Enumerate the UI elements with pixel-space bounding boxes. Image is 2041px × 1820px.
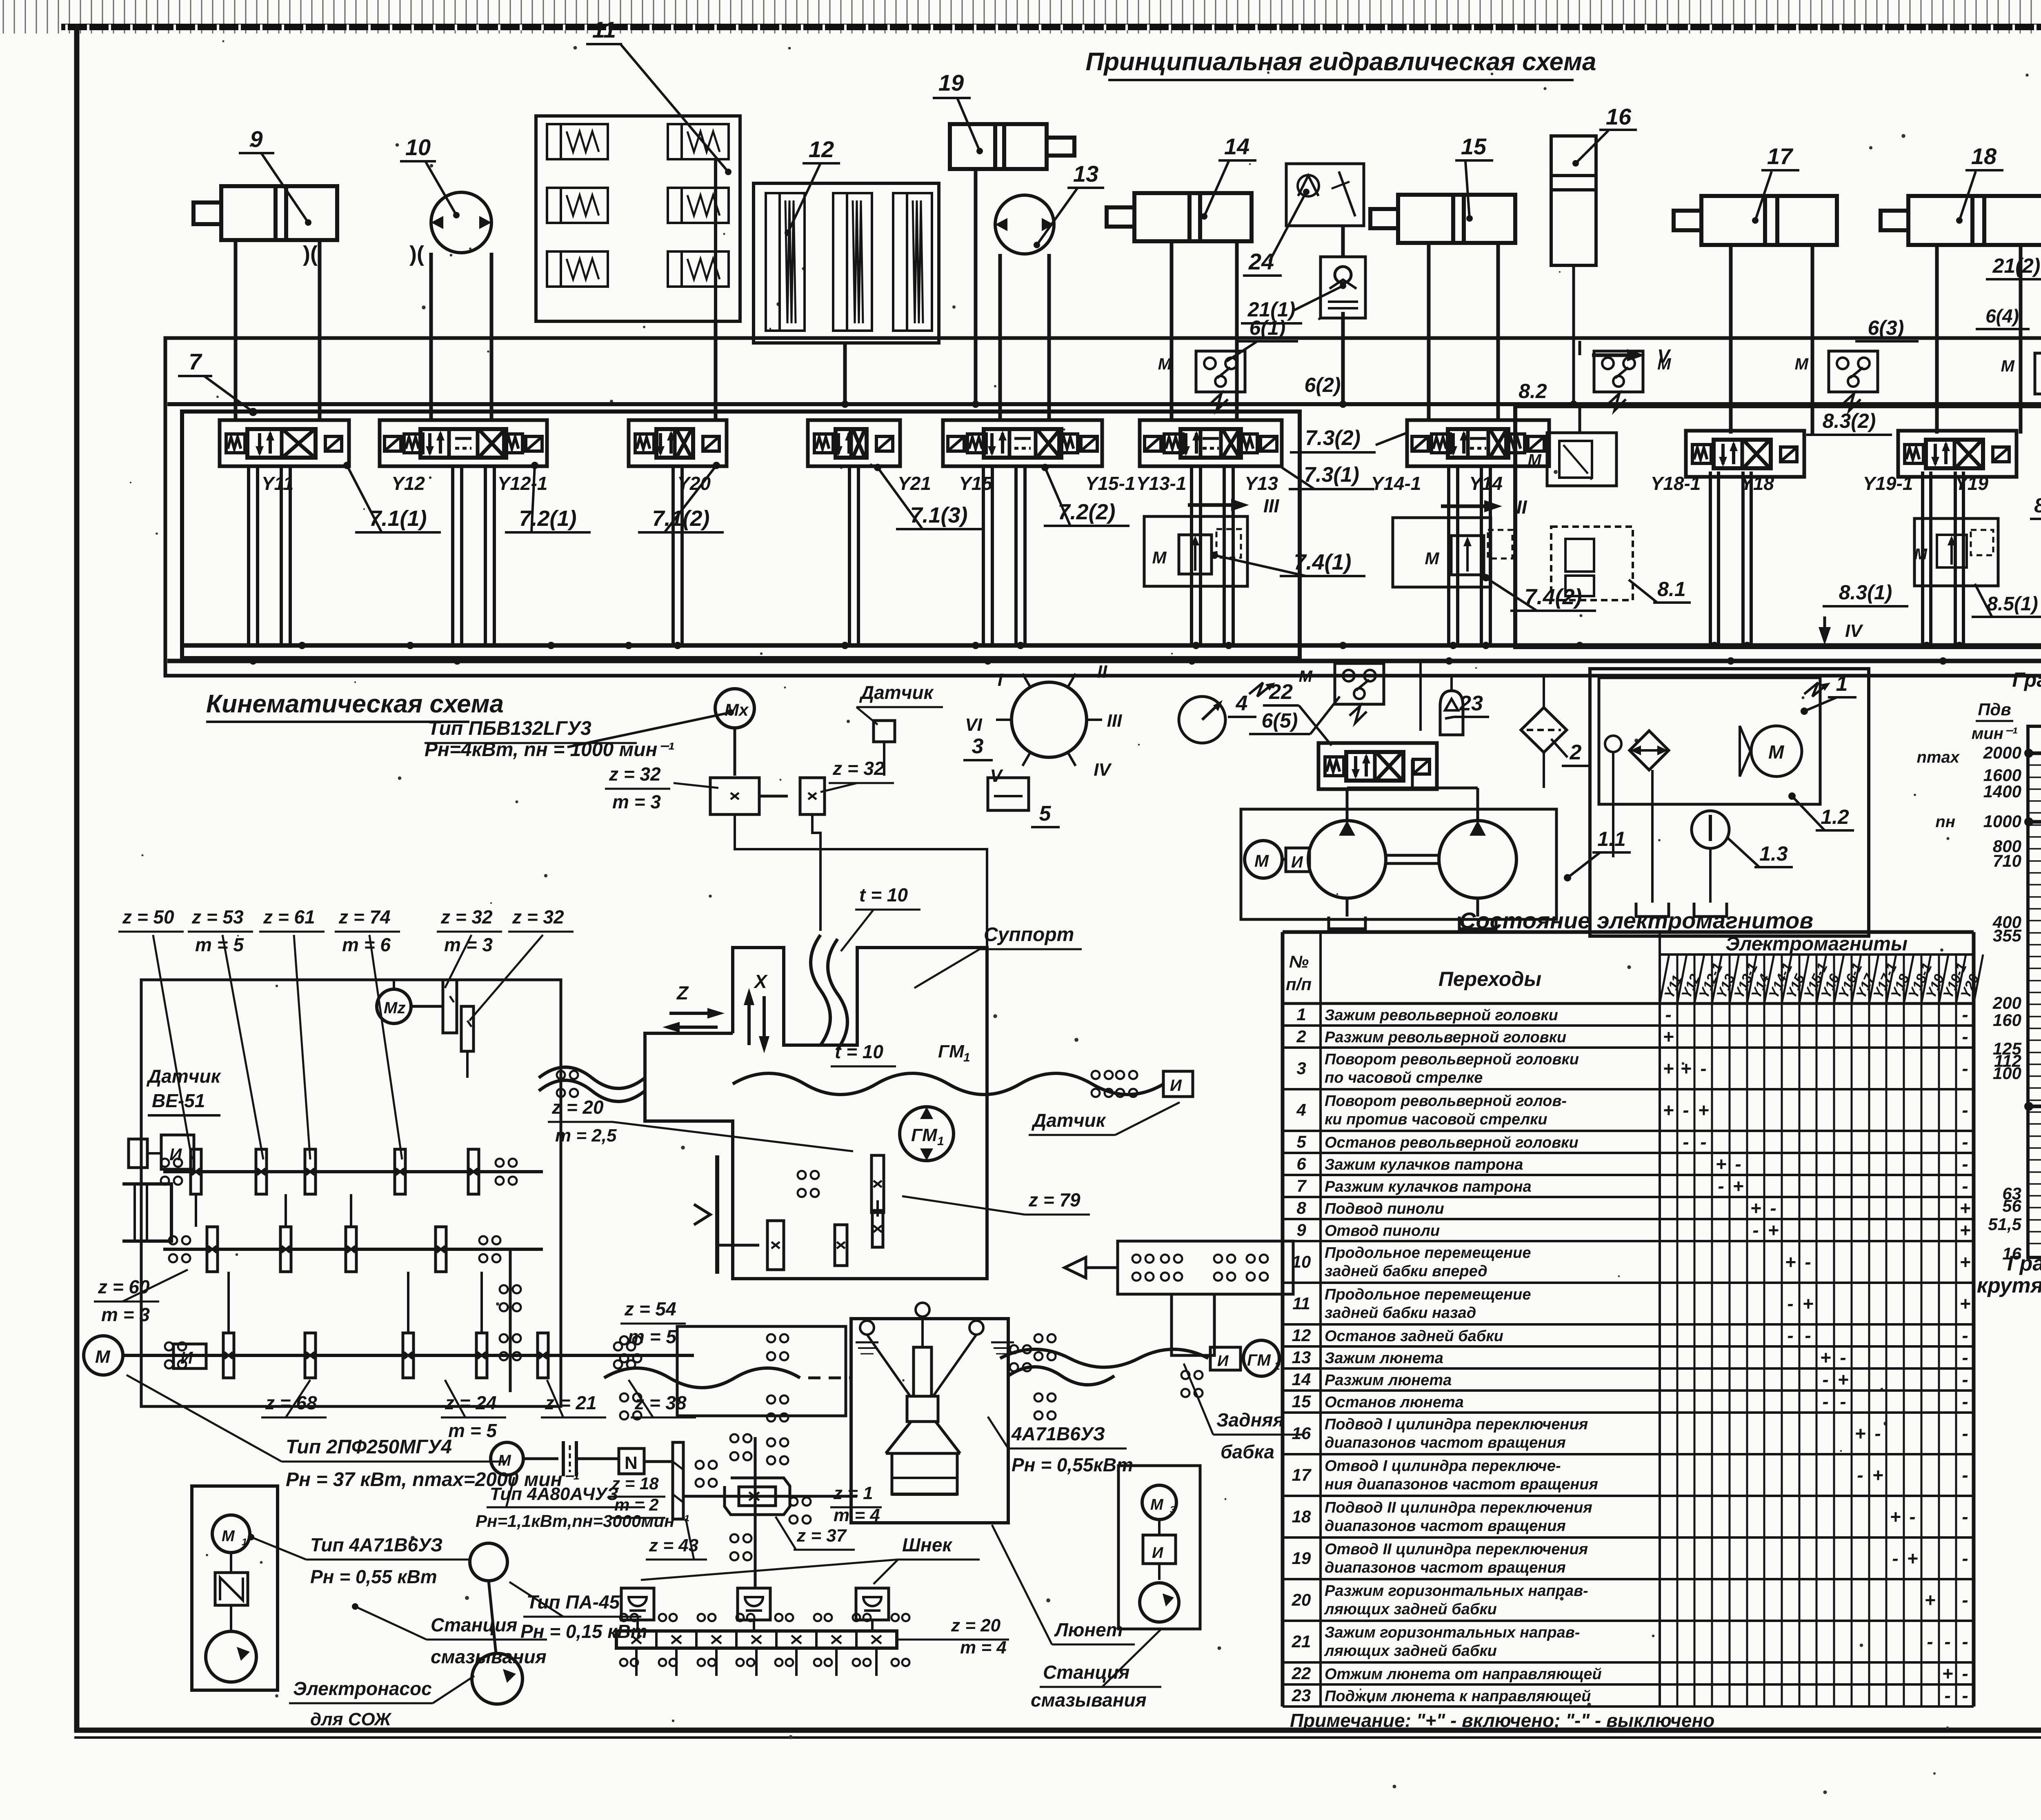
svg-text:7.3(1): 7.3(1) (1304, 463, 1359, 487)
svg-text:19: 19 (1292, 1549, 1311, 1568)
svg-text:7.2(1): 7.2(1) (519, 506, 576, 531)
svg-text:для СОЖ: для СОЖ (310, 1709, 392, 1729)
svg-text:Разжим револьверной головки: Разжим револьверной головки (1325, 1029, 1566, 1046)
svg-text:+: + (1855, 1423, 1866, 1444)
svg-text:Y18: Y18 (1741, 473, 1774, 494)
svg-text:5: 5 (1296, 1132, 1306, 1151)
svg-text:+: + (1698, 1099, 1709, 1121)
svg-text:Зажим револьверной головки: Зажим револьверной головки (1325, 1007, 1558, 1024)
svg-text:11: 11 (592, 17, 616, 42)
svg-text:-: - (1944, 1631, 1950, 1652)
svg-text:ГМ: ГМ (938, 1041, 965, 1061)
svg-text:-: - (1962, 1325, 1968, 1346)
svg-text:1.3: 1.3 (1759, 842, 1788, 865)
svg-text:3: 3 (1170, 1504, 1176, 1515)
svg-text:ния диапазонов частот вращения: ния диапазонов частот вращения (1325, 1476, 1598, 1493)
svg-text:-: - (1962, 1391, 1968, 1412)
svg-text:6: 6 (1296, 1154, 1306, 1173)
svg-text:Пдв: Пдв (1978, 700, 2011, 719)
svg-text:nн: nн (1935, 813, 1955, 831)
svg-text:И: И (1217, 1353, 1229, 1370)
svg-text:z = 1: z = 1 (833, 1483, 873, 1503)
svg-text:задней бабки назад: задней бабки назад (1325, 1304, 1476, 1322)
svg-text:z = 38: z = 38 (634, 1392, 687, 1413)
svg-text:Y14-1: Y14-1 (1371, 473, 1421, 494)
svg-text:1000: 1000 (1983, 812, 2021, 831)
svg-text:-: - (1683, 1099, 1689, 1121)
svg-text:-: - (1962, 1685, 1968, 1706)
svg-text:8: 8 (1296, 1198, 1306, 1217)
svg-text:10: 10 (1292, 1252, 1311, 1271)
svg-text:Y15-1: Y15-1 (1085, 473, 1136, 494)
svg-text:100: 100 (1993, 1064, 2021, 1083)
svg-text:Y18-1: Y18-1 (1651, 473, 1701, 494)
svg-text:16: 16 (1292, 1424, 1311, 1443)
svg-text:График частот вращения: График частот вращения (2012, 668, 2041, 691)
svg-text:+: + (1803, 1293, 1814, 1314)
svg-text:мин⁻¹: мин⁻¹ (1972, 725, 2018, 743)
svg-text:Y12-1: Y12-1 (498, 473, 548, 494)
svg-text:+: + (1960, 1197, 1971, 1219)
svg-text:-: - (1962, 1506, 1968, 1527)
svg-text:Продольное перемещение: Продольное перемещение (1325, 1244, 1531, 1262)
svg-text:8.5(1): 8.5(1) (1987, 593, 2038, 615)
svg-text:Pн=1,1кВт,nн=3000мин⁻¹: Pн=1,1кВт,nн=3000мин⁻¹ (476, 1511, 689, 1531)
svg-text:М: М (95, 1347, 111, 1367)
svg-text:диапазонов частот вращения: диапазонов частот вращения (1325, 1517, 1566, 1535)
svg-text:Электронасос: Электронасос (293, 1678, 432, 1699)
svg-text:II: II (1516, 496, 1527, 518)
svg-text:-: - (1700, 1131, 1706, 1153)
svg-text:Y19: Y19 (1955, 473, 1988, 494)
svg-text:Шнек: Шнек (902, 1534, 953, 1555)
svg-text:-: - (1962, 1631, 1968, 1652)
svg-text:21: 21 (1292, 1632, 1311, 1651)
svg-text:ляющих задней бабки: ляющих задней бабки (1324, 1642, 1497, 1660)
svg-text:z = 53: z = 53 (191, 906, 244, 928)
svg-text:4А71В6УЗ: 4А71В6УЗ (1011, 1423, 1105, 1444)
svg-text:18: 18 (1971, 143, 1997, 169)
svg-text:6(4): 6(4) (1985, 305, 2019, 327)
svg-text:z = 61: z = 61 (263, 906, 315, 928)
svg-text:7.3(2): 7.3(2) (1305, 426, 1361, 450)
svg-text:+: + (1942, 1663, 1953, 1684)
svg-text:М: М (222, 1528, 235, 1545)
svg-text:Датчик: Датчик (859, 682, 934, 703)
svg-text:1: 1 (1836, 672, 1848, 696)
svg-text:N: N (625, 1453, 638, 1473)
svg-text:m = 5: m = 5 (448, 1420, 497, 1441)
svg-text:11: 11 (1292, 1294, 1310, 1313)
svg-text:-: - (1770, 1197, 1776, 1219)
svg-text:Подвод пиноли: Подвод пиноли (1325, 1200, 1444, 1217)
svg-text:20: 20 (1292, 1590, 1311, 1609)
svg-text:Останов задней бабки: Останов задней бабки (1325, 1328, 1503, 1345)
svg-text:Y12: Y12 (391, 473, 425, 494)
svg-text:И: И (1170, 1077, 1182, 1095)
svg-text:-: - (1805, 1325, 1811, 1346)
svg-text:8.1: 8.1 (1657, 578, 1686, 601)
svg-text:-: - (1787, 1293, 1793, 1314)
svg-text:2000: 2000 (1983, 743, 2021, 762)
svg-text:+: + (1960, 1251, 1971, 1273)
svg-text:16: 16 (1606, 104, 1632, 129)
svg-text:Pн = 0,55 кВт: Pн = 0,55 кВт (310, 1566, 437, 1587)
svg-text:Принципиальная гидравлическая: Принципиальная гидравлическая схема (1086, 48, 1596, 76)
svg-text:3: 3 (1296, 1059, 1306, 1078)
svg-text:Y13-1: Y13-1 (1136, 473, 1187, 494)
svg-text:-: - (1735, 1153, 1741, 1175)
svg-text:+: + (1960, 1293, 1971, 1314)
svg-text:7: 7 (1296, 1176, 1307, 1195)
svg-text:+: + (1960, 1219, 1971, 1241)
svg-text:М: М (1158, 355, 1172, 373)
svg-text:+: + (1681, 1058, 1692, 1079)
svg-text:И: И (169, 1145, 182, 1164)
svg-text:Pн = 0,55кВт: Pн = 0,55кВт (1012, 1454, 1133, 1475)
svg-text:9: 9 (250, 126, 262, 152)
svg-text:№: № (1289, 952, 1309, 971)
svg-text:z = 37: z = 37 (796, 1526, 847, 1546)
svg-text:М: М (1299, 667, 1313, 685)
svg-text:+: + (1663, 1026, 1674, 1047)
svg-text:VI: VI (965, 715, 982, 735)
svg-text:-: - (1874, 1423, 1881, 1444)
svg-text:z = 50: z = 50 (122, 906, 174, 928)
svg-text:М: М (1768, 741, 1785, 763)
svg-text:Люнет: Люнет (1054, 1619, 1123, 1640)
svg-text:п/п: п/п (1286, 975, 1312, 994)
svg-text:+: + (1785, 1251, 1796, 1273)
svg-text:+: + (1925, 1589, 1936, 1611)
svg-text:ВЕ-51: ВЕ-51 (152, 1090, 205, 1111)
svg-text:Разжим горизонтальных направ-: Разжим горизонтальных направ- (1325, 1582, 1588, 1600)
svg-text:160: 160 (1993, 1010, 2021, 1030)
svg-text:2: 2 (1296, 1027, 1306, 1046)
svg-text:21(2): 21(2) (1992, 254, 2041, 277)
svg-text:Тип 4А71В6УЗ: Тип 4А71В6УЗ (310, 1534, 442, 1555)
svg-text:4: 4 (1296, 1100, 1306, 1119)
svg-text:крутящего момента Т на шпинде: крутящего момента Т на шпинделе (1977, 1274, 2041, 1297)
svg-text:-: - (1718, 1175, 1724, 1197)
svg-text:задней бабки вперед: задней бабки вперед (1325, 1263, 1487, 1280)
svg-text:диапазонов частот вращения: диапазонов частот вращения (1325, 1559, 1566, 1576)
svg-text:М: М (1152, 548, 1167, 567)
svg-text:Датчик: Датчик (146, 1066, 222, 1087)
svg-text:-: - (1805, 1251, 1811, 1273)
svg-text:Зажим люнета: Зажим люнета (1325, 1350, 1443, 1367)
svg-text:М: М (1528, 451, 1542, 469)
svg-text:I: I (998, 670, 1003, 690)
svg-text:-: - (1962, 1026, 1968, 1047)
svg-text:бабка: бабка (1221, 1441, 1274, 1462)
svg-text:1400: 1400 (1983, 782, 2021, 801)
svg-text:14: 14 (1224, 133, 1250, 159)
svg-text:19: 19 (938, 70, 964, 96)
svg-text:Y14: Y14 (1469, 473, 1503, 494)
svg-text:-: - (1752, 1219, 1759, 1241)
svg-text:13: 13 (1292, 1348, 1311, 1367)
svg-text:t = 10: t = 10 (859, 884, 908, 906)
svg-text:III: III (1107, 711, 1122, 731)
svg-text:-: - (1962, 1589, 1968, 1611)
svg-text:4: 4 (1236, 692, 1248, 715)
svg-text:7.4(1): 7.4(1) (1294, 550, 1351, 574)
svg-text:18: 18 (1292, 1507, 1311, 1526)
svg-text:17: 17 (1292, 1465, 1312, 1484)
svg-text:-: - (1840, 1391, 1846, 1412)
svg-text:-: - (1700, 1058, 1706, 1079)
svg-text:Отвод I цилиндра переключе-: Отвод I цилиндра переключе- (1325, 1457, 1561, 1475)
svg-text:-: - (1962, 1131, 1968, 1153)
svg-text:m = 5: m = 5 (195, 934, 244, 955)
svg-text:+: + (1820, 1347, 1831, 1368)
svg-text:-: - (1787, 1325, 1793, 1346)
svg-text:8.2: 8.2 (1519, 380, 1547, 403)
svg-text:Переходы: Переходы (1438, 968, 1541, 990)
svg-text:III: III (1263, 495, 1280, 516)
svg-text:8.3(2): 8.3(2) (1823, 409, 1876, 432)
svg-text:-: - (1822, 1391, 1828, 1412)
svg-text:-: - (1665, 1004, 1671, 1025)
svg-text:-: - (1944, 1685, 1950, 1706)
svg-text:-: - (1962, 1099, 1968, 1121)
svg-text:Поджим люнета к направляющей: Поджим люнета к направляющей (1325, 1688, 1591, 1705)
svg-text:М: М (498, 1452, 511, 1469)
svg-text:М: М (1914, 546, 1928, 563)
svg-text:Кинематическая схема: Кинематическая схема (206, 690, 504, 718)
svg-text:nтах: nтах (1917, 748, 1960, 766)
svg-text:12: 12 (1292, 1326, 1311, 1345)
svg-text:m = 3: m = 3 (101, 1304, 150, 1325)
svg-text:Останов револьверной головки: Останов револьверной головки (1325, 1134, 1579, 1151)
svg-text:1: 1 (937, 1135, 944, 1148)
svg-text:II: II (1097, 662, 1107, 682)
svg-text:z = 74: z = 74 (338, 906, 391, 928)
svg-text:Y13: Y13 (1245, 473, 1278, 494)
svg-text:6(3): 6(3) (1868, 316, 1904, 339)
svg-text:Pн=4кВт, nн = 1000 мин⁻¹: Pн=4кВт, nн = 1000 мин⁻¹ (425, 739, 674, 761)
svg-text:+: + (1750, 1197, 1761, 1219)
svg-text:IV: IV (1845, 621, 1863, 641)
svg-text:16: 16 (2002, 1244, 2021, 1263)
svg-text:М: М (1795, 355, 1809, 373)
svg-text:М: М (1425, 549, 1440, 568)
svg-text:-: - (1683, 1131, 1689, 1153)
svg-text:56: 56 (2002, 1196, 2021, 1215)
svg-text:Датчик: Датчик (1031, 1110, 1107, 1131)
svg-text:Разжим кулачков патрона: Разжим кулачков патрона (1325, 1178, 1532, 1195)
svg-text:10: 10 (405, 134, 431, 160)
svg-text:Отвод пиноли: Отвод пиноли (1325, 1222, 1440, 1239)
svg-text:-: - (1892, 1548, 1898, 1569)
svg-text:-: - (1840, 1347, 1846, 1368)
svg-text:1: 1 (963, 1051, 970, 1064)
svg-text:23: 23 (1459, 692, 1483, 715)
svg-text:5: 5 (1039, 802, 1052, 825)
svg-text:+: + (1768, 1219, 1779, 1241)
svg-text:Разжим люнета: Разжим люнета (1325, 1372, 1452, 1389)
svg-text:1: 1 (1296, 1005, 1306, 1024)
svg-text:22: 22 (1292, 1664, 1311, 1683)
svg-text:3: 3 (972, 734, 984, 758)
svg-text:Y21: Y21 (898, 473, 931, 494)
svg-text:V: V (1657, 345, 1671, 367)
svg-text:И: И (1291, 853, 1303, 871)
svg-text:ГМ: ГМ (911, 1125, 938, 1145)
svg-text:смазывания: смазывания (1031, 1689, 1147, 1711)
svg-text:Тип ПБВ132LГУ3: Тип ПБВ132LГУ3 (428, 718, 591, 739)
svg-text:1.1: 1.1 (1597, 828, 1626, 850)
svg-text:Поворот револьверной голов-: Поворот револьверной голов- (1325, 1092, 1567, 1110)
svg-text:X: X (753, 971, 768, 992)
svg-text:6(1): 6(1) (1250, 316, 1286, 339)
svg-text:8.4: 8.4 (2034, 494, 2041, 517)
svg-text:IV: IV (1094, 760, 1112, 780)
svg-text:Отжим люнета от направляющей: Отжим люнета от направляющей (1325, 1666, 1602, 1683)
svg-text:15: 15 (1292, 1392, 1311, 1411)
svg-text:z = 54: z = 54 (624, 1298, 676, 1319)
svg-text:-: - (1927, 1631, 1933, 1652)
svg-text:-: - (1962, 1004, 1968, 1025)
svg-text:по часовой стрелке: по часовой стрелке (1325, 1069, 1483, 1086)
svg-text:-: - (1962, 1464, 1968, 1486)
svg-text:диапазонов частот вращения: диапазонов частот вращения (1325, 1434, 1566, 1451)
svg-text:1.2: 1.2 (1821, 805, 1849, 828)
svg-text:m = 4: m = 4 (960, 1638, 1007, 1658)
svg-text:51,5: 51,5 (1988, 1215, 2021, 1234)
svg-text:-: - (1962, 1369, 1968, 1390)
svg-text:t = 10: t = 10 (835, 1041, 883, 1062)
svg-text:Z: Z (676, 982, 689, 1003)
svg-text:-: - (1857, 1464, 1863, 1486)
svg-text:z = 20: z = 20 (951, 1615, 1001, 1635)
svg-text:-: - (1962, 1548, 1968, 1569)
svg-text:-: - (1822, 1369, 1828, 1390)
svg-text:7: 7 (189, 349, 202, 374)
svg-text:ки против часовой стрелки: ки против часовой стрелки (1325, 1111, 1547, 1128)
svg-text:6(5): 6(5) (1262, 709, 1298, 732)
svg-text:-: - (1962, 1423, 1968, 1444)
svg-text:23: 23 (1292, 1686, 1311, 1705)
svg-text:710: 710 (1993, 851, 2021, 870)
svg-text:М: М (1150, 1496, 1164, 1513)
svg-text:Подвод II цилиндра переключени: Подвод II цилиндра переключения (1325, 1499, 1592, 1516)
svg-text:7.2(2): 7.2(2) (1058, 500, 1115, 524)
svg-text:6(2): 6(2) (1305, 374, 1341, 396)
svg-text:Останов люнета: Останов люнета (1325, 1394, 1464, 1411)
svg-text:Подвод I цилиндра переключения: Подвод I цилиндра переключения (1325, 1416, 1588, 1433)
svg-text:+: + (1663, 1099, 1674, 1121)
svg-text:2: 2 (1570, 741, 1582, 764)
svg-text:Отвод II цилиндра переключения: Отвод II цилиндра переключения (1325, 1541, 1588, 1558)
svg-text:-: - (1962, 1153, 1968, 1175)
svg-text:z = 32: z = 32 (512, 906, 564, 928)
svg-text:+: + (1663, 1058, 1674, 1079)
svg-text:+: + (1872, 1464, 1883, 1486)
svg-text:ГМ: ГМ (1247, 1351, 1272, 1369)
svg-text:m = 2,5: m = 2,5 (555, 1126, 617, 1146)
svg-text:13: 13 (1073, 161, 1098, 187)
svg-text:V: V (990, 766, 1003, 786)
svg-text:Y19-1: Y19-1 (1863, 473, 1913, 494)
svg-text:М: М (2001, 357, 2015, 375)
svg-text:12: 12 (809, 136, 834, 162)
svg-text:z = 32: z = 32 (832, 758, 885, 779)
svg-text:Y15: Y15 (959, 473, 993, 494)
svg-text:2: 2 (1274, 1360, 1281, 1372)
svg-text:z = 20: z = 20 (551, 1097, 604, 1118)
svg-text:z = 32: z = 32 (609, 763, 661, 785)
svg-text:9: 9 (1296, 1220, 1306, 1239)
svg-text:+: + (1907, 1548, 1918, 1569)
svg-text:смазывания: смазывания (431, 1646, 547, 1667)
svg-text:-: - (1962, 1058, 1968, 1079)
svg-text:Зажим горизонтальных направ-: Зажим горизонтальных направ- (1325, 1624, 1580, 1641)
svg-text:m = 3: m = 3 (444, 934, 493, 955)
svg-text:-: - (1962, 1347, 1968, 1368)
svg-text:15: 15 (1461, 133, 1487, 159)
svg-text:1: 1 (242, 1537, 247, 1548)
svg-text:Задняя: Задняя (1216, 1409, 1284, 1431)
svg-text:И: И (180, 1348, 193, 1367)
svg-text:8.3(1): 8.3(1) (1839, 581, 1892, 604)
svg-text:200: 200 (1992, 993, 2021, 1012)
svg-text:Станция: Станция (431, 1614, 517, 1635)
svg-text:z = 21: z = 21 (545, 1392, 597, 1413)
svg-text:14: 14 (1292, 1370, 1311, 1389)
svg-text:Поворот револьверной головки: Поворот револьверной головки (1325, 1051, 1579, 1068)
svg-text:355: 355 (1993, 926, 2022, 945)
svg-text:m = 3: m = 3 (612, 791, 661, 812)
svg-text:Мz: Мz (384, 999, 405, 1017)
svg-text:И: И (1152, 1544, 1163, 1562)
svg-text:+: + (1716, 1153, 1727, 1175)
svg-text:)(: )( (303, 242, 318, 266)
svg-text:М: М (1254, 851, 1269, 870)
svg-text:Продольное перемещение: Продольное перемещение (1325, 1286, 1531, 1303)
svg-text:-: - (1962, 1175, 1968, 1197)
svg-text:+: + (1733, 1175, 1744, 1197)
svg-text:Суппорт: Суппорт (984, 924, 1074, 946)
svg-text:Мх: Мх (725, 700, 749, 719)
svg-text:-: - (1909, 1506, 1915, 1527)
svg-text:z = 32: z = 32 (440, 906, 493, 928)
svg-text:+: + (1890, 1506, 1901, 1527)
svg-text:ляющих задней бабки: ляющих задней бабки (1324, 1601, 1497, 1618)
svg-text:z = 79: z = 79 (1028, 1189, 1081, 1210)
svg-text:Примечание: "+" - включено;: Примечание: "+" - включено; "-" - выключ… (1290, 1710, 1714, 1731)
svg-text:24: 24 (1248, 249, 1274, 274)
svg-text:Зажим кулачков патрона: Зажим кулачков патрона (1325, 1156, 1523, 1173)
svg-text:z = 60: z = 60 (98, 1276, 150, 1297)
svg-text:)(: )( (409, 242, 424, 266)
svg-text:+: + (1838, 1369, 1849, 1390)
svg-text:Тип 2ПФ250МГУ4: Тип 2ПФ250МГУ4 (286, 1436, 452, 1458)
svg-text:m = 6: m = 6 (342, 934, 391, 955)
svg-text:17: 17 (1767, 143, 1794, 169)
svg-text:-: - (1962, 1663, 1968, 1684)
